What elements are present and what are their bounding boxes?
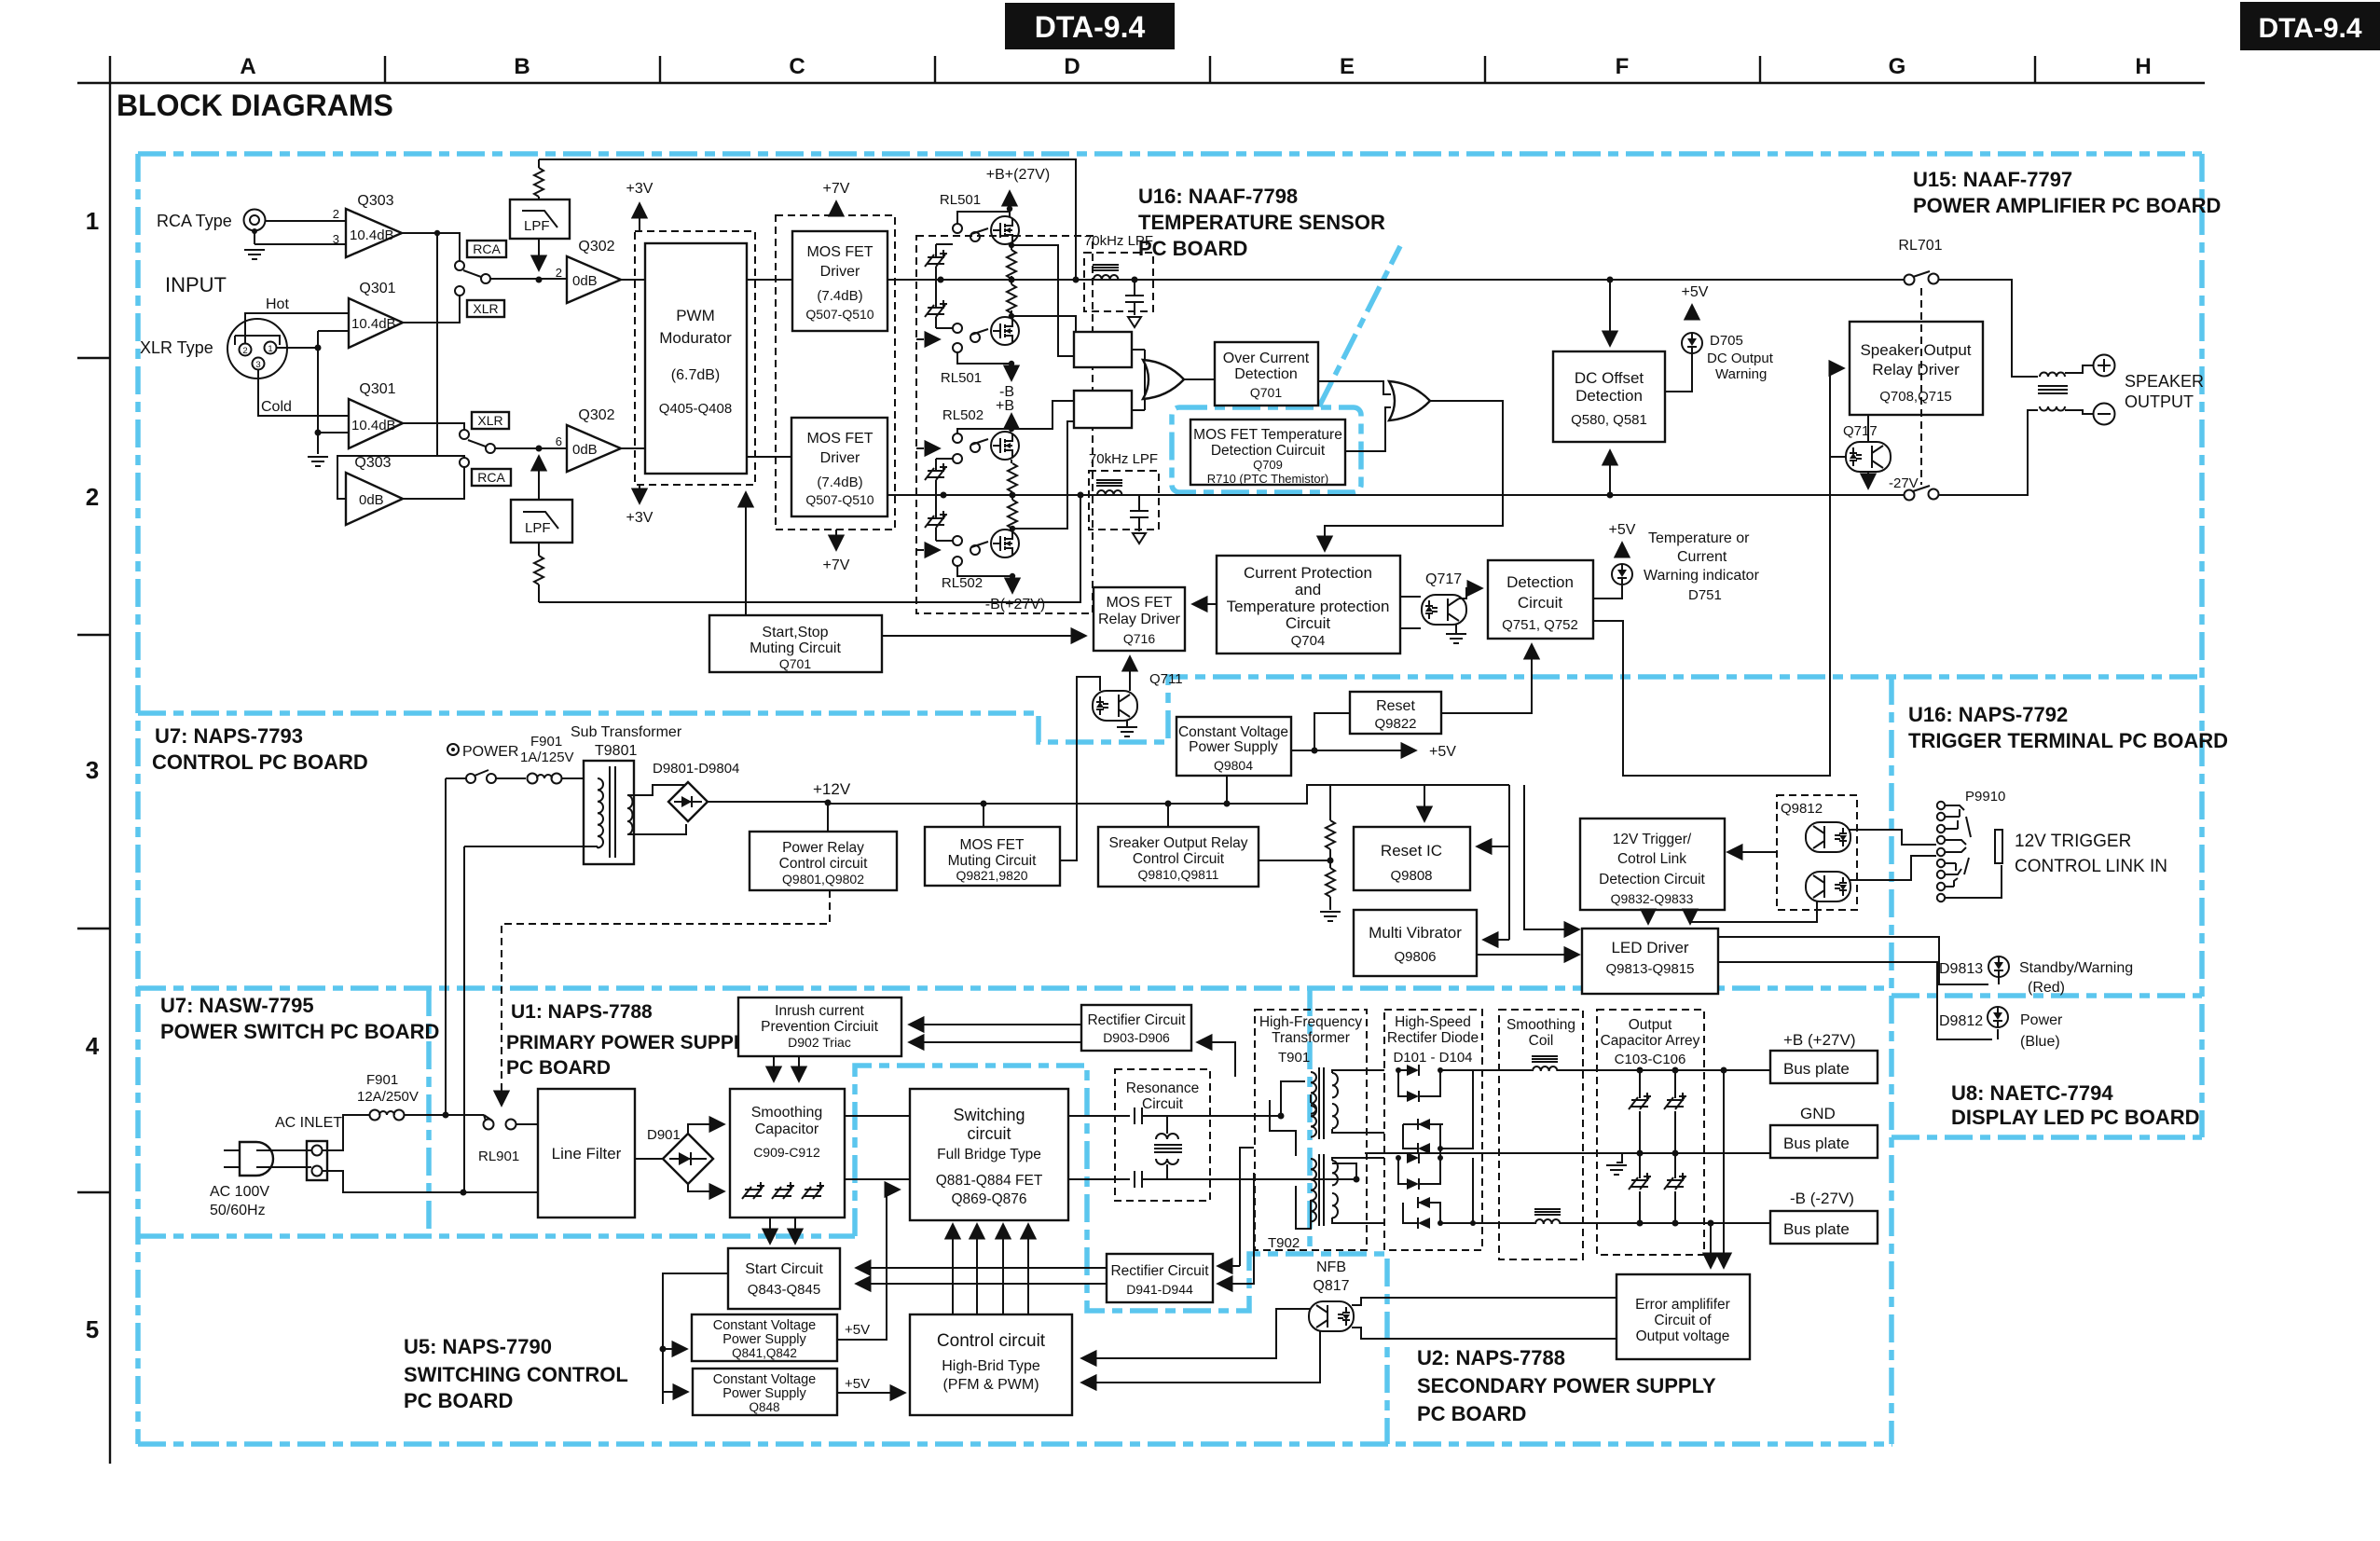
constant voltage power supply Q848 box — [693, 1369, 837, 1415]
wire smoothing to switching upper — [845, 1115, 910, 1117]
led D9813 — [1988, 956, 2009, 977]
wire caps to relay upper — [936, 244, 953, 328]
optocoupler Q9812 lower — [1806, 872, 1850, 901]
wire Q303 output to selector RCA — [402, 233, 460, 261]
wire into DC offset bottom from lower channel — [1609, 450, 1611, 495]
svg-text:+7V: +7V — [823, 557, 850, 573]
wire resistor to feedback top — [538, 159, 540, 200]
svg-text:Q405-Q408: Q405-Q408 — [659, 401, 732, 417]
power relay control circuit box — [750, 832, 897, 890]
U1 primary power supply board label — [506, 1001, 757, 1079]
svg-text:Standby/Warning: Standby/Warning — [2019, 960, 2133, 976]
transformer T901 — [1281, 1067, 1384, 1139]
U15 board right frame edge — [2199, 154, 2205, 1137]
svg-text:LPF: LPF — [525, 520, 551, 536]
wire rectifier D903 to inrush arrows — [909, 1024, 1081, 1025]
svg-text:High-Brid Type: High-Brid Type — [942, 1358, 1040, 1374]
resistor chain upper1 — [1007, 250, 1016, 279]
resonance circuit dashed box — [1115, 1069, 1210, 1201]
wire rail branch muting — [983, 804, 984, 827]
wire fuse to relay RL901 — [404, 1115, 486, 1121]
capacitor bias lower1 — [925, 463, 947, 480]
wire to Q301 lower input — [318, 432, 349, 433]
svg-text:Power Supply: Power Supply — [722, 1332, 806, 1347]
svg-text:Warning: Warning — [1715, 366, 1767, 382]
resistor above LPF upper — [534, 168, 543, 197]
+5V arrow into switching — [887, 1189, 900, 1190]
wire Q841 +5V to switching — [837, 1190, 887, 1340]
plus terminal — [2094, 355, 2115, 377]
svg-text:2: 2 — [242, 346, 247, 356]
svg-text:U16: NAAF-7798: U16: NAAF-7798 — [1138, 185, 1298, 208]
PWM modurator box — [645, 243, 747, 474]
U2 secondary power supply board label — [1417, 1346, 1716, 1425]
svg-text:Q708,Q715: Q708,Q715 — [1879, 389, 1952, 405]
fuse F901 control — [520, 734, 574, 784]
svg-text:PC BOARD: PC BOARD — [404, 1389, 513, 1412]
node n — [1010, 573, 1015, 579]
svg-text:Smoothing: Smoothing — [751, 1105, 823, 1121]
svg-text:RL502: RL502 — [942, 575, 983, 591]
nodes on GND rail — [1637, 1150, 1679, 1157]
DC offset detection box — [1553, 351, 1665, 442]
wires into D941 right arrows — [1218, 1265, 1240, 1267]
U16 trigger frame bottom — [1892, 993, 2202, 998]
node i — [1009, 242, 1014, 248]
wire NFB to error amp upper — [1352, 1298, 1616, 1305]
70kHz LPF upper dashed box — [1084, 233, 1153, 311]
sub transformer label — [571, 724, 682, 759]
AC plug — [224, 1142, 273, 1176]
svg-text:+7V: +7V — [823, 181, 850, 197]
svg-text:5: 5 — [86, 1315, 99, 1343]
label DC Output Warning — [1707, 351, 1774, 382]
capacitor bias upper1 — [925, 250, 947, 267]
capacitor array C103 upper — [1629, 1070, 1686, 1153]
svg-text:Q507-Q510: Q507-Q510 — [805, 307, 874, 322]
wire Q9804 down to 12V rail — [1226, 776, 1228, 804]
capacitor bias upper2 — [925, 300, 947, 317]
svg-text:BLOCK DIAGRAMS: BLOCK DIAGRAMS — [117, 89, 393, 122]
optocoupler Q717 — [1422, 595, 1466, 625]
resistor below LPF lower — [534, 556, 543, 585]
svg-text:Q881-Q884 FET: Q881-Q884 FET — [936, 1173, 1043, 1189]
wire into multi vibrator right arrow — [1483, 939, 1509, 941]
svg-text:U8: NAETC-7794: U8: NAETC-7794 — [1951, 1081, 2113, 1105]
svg-text:F901: F901 — [366, 1072, 398, 1088]
node m — [1010, 526, 1015, 531]
svg-text:Detection Circuit: Detection Circuit — [1599, 872, 1705, 887]
detection circuit box — [1488, 560, 1593, 639]
svg-text:Detection: Detection — [1575, 387, 1643, 405]
wire opto lower to led driver arrow — [1690, 901, 1817, 924]
svg-text:Q9832-Q9833: Q9832-Q9833 — [1611, 891, 1694, 906]
svg-text:R710 (PTC Themistor): R710 (PTC Themistor) — [1207, 472, 1329, 486]
svg-text:RL501: RL501 — [941, 370, 982, 386]
wire resistor divider — [1329, 785, 1331, 910]
label 12V TRIGGER CONTROL LINK IN — [2015, 832, 2167, 876]
wire rail branch power relay — [827, 803, 829, 832]
relay RL901 contacts — [484, 1115, 516, 1130]
svg-text:U7: NAPS-7793: U7: NAPS-7793 — [155, 724, 303, 748]
svg-text:3: 3 — [255, 360, 260, 370]
svg-text:Capacitor: Capacitor — [755, 1121, 819, 1137]
MOS FET relay driver box — [1094, 587, 1185, 651]
OR gate U-or2 — [1389, 381, 1430, 420]
start circuit box — [728, 1248, 840, 1309]
svg-text:DISPLAY LED PC BOARD: DISPLAY LED PC BOARD — [1951, 1106, 2200, 1129]
wire muting circuit to Q711 — [1060, 677, 1100, 860]
label SPEAKER OUTPUT — [2125, 372, 2204, 411]
wire into DC offset top — [1609, 280, 1611, 346]
svg-text:Capacitor Arrey: Capacitor Arrey — [1601, 1033, 1700, 1049]
wire relay lower to output transformer — [1938, 410, 2038, 495]
node resonance upper — [1278, 1113, 1285, 1120]
svg-text:POWER SWITCH PC BOARD: POWER SWITCH PC BOARD — [160, 1020, 439, 1043]
svg-text:Q711: Q711 — [1149, 671, 1183, 687]
MOS FET temperature detection box — [1190, 420, 1345, 486]
svg-text:1: 1 — [268, 344, 272, 354]
constant voltage power supply Q841 box — [692, 1314, 837, 1361]
wire into reset IC right arrow — [1477, 846, 1509, 847]
svg-text:Full Bridge Type: Full Bridge Type — [937, 1147, 1041, 1163]
wire over current to OR2 — [1318, 381, 1391, 394]
svg-text:2: 2 — [556, 266, 562, 280]
wire transformer to minus terminal — [2065, 410, 2093, 414]
selector lower switch — [460, 430, 495, 467]
wire Q848 +5V to control circuit arrow — [837, 1392, 905, 1394]
switching circuit box — [910, 1089, 1068, 1220]
wire switching to resonance lower — [1068, 1178, 1130, 1180]
+3V bottom arrow — [626, 485, 653, 526]
svg-text:70kHz LPF: 70kHz LPF — [1089, 451, 1158, 467]
MOS FET driver dashed box — [776, 215, 895, 530]
svg-text:POWER: POWER — [462, 744, 518, 760]
reset IC box — [1354, 827, 1470, 890]
svg-text:Q843-Q845: Q843-Q845 — [748, 1282, 820, 1298]
wire led driver to D9813 — [1718, 937, 1999, 984]
op-amp Q302 lower — [556, 407, 621, 472]
svg-text:Coil: Coil — [1529, 1033, 1554, 1049]
wire bridge to smoothing cap top — [688, 1124, 724, 1134]
wire DC offset to speaker relay driver — [1593, 368, 1844, 776]
12V trigger detection box — [1580, 819, 1725, 910]
wire opto upper to connector — [1850, 830, 1936, 845]
label Power (Blue) — [2020, 1012, 2063, 1050]
arrow +5V warning — [1621, 543, 1623, 556]
wire current protection to relay driver arrow — [1192, 603, 1217, 605]
node f — [1010, 492, 1016, 499]
right lower frame vertical (U16/U8 left edge) — [1889, 677, 1894, 1444]
svg-text:Q302: Q302 — [578, 239, 614, 255]
svg-text:Q751, Q752: Q751, Q752 — [1502, 617, 1578, 633]
smoothing coil dashed box — [1499, 1010, 1583, 1259]
svg-text:+3V: +3V — [626, 181, 653, 197]
control up arrow4 — [1027, 1224, 1029, 1314]
svg-text:U5: NAPS-7790: U5: NAPS-7790 — [404, 1335, 552, 1358]
MOS FET driver upper box — [792, 231, 887, 331]
wires control circuit up arrows to switching — [952, 1224, 954, 1314]
connector P9910 pins — [1937, 802, 2002, 901]
wire inrush arrow2 — [798, 1056, 800, 1081]
svg-text:XLR: XLR — [473, 301, 498, 316]
wire Q717 to detection circuit arrow — [1459, 588, 1482, 599]
svg-text:and: and — [1295, 581, 1321, 599]
wire Q303 lower output — [403, 467, 464, 499]
wire rail branch sreaker relay — [1167, 804, 1169, 827]
svg-text:0dB: 0dB — [572, 442, 598, 458]
bus plate box 3 — [1770, 1211, 1878, 1244]
-B(+27V) arrow down — [1011, 576, 1013, 593]
svg-text:RL701: RL701 — [1898, 238, 1942, 254]
bridge rectifier D9801-D9804 — [653, 761, 739, 821]
wire upper into led driver — [1524, 785, 1579, 929]
svg-text:Line Filter: Line Filter — [552, 1145, 622, 1163]
dashed control path to RL901 — [502, 890, 830, 1106]
wire multi vibrator to led driver — [1477, 954, 1579, 956]
resistor chain lower1 — [1008, 463, 1017, 492]
wires inrush to smoothing cap arrows — [773, 1056, 775, 1081]
label F901 12A/250V — [357, 1072, 419, 1105]
wire Q302 lower to PWM — [621, 447, 645, 449]
wire NFB to control circuit lower — [1081, 1331, 1320, 1383]
svg-text:1A/125V: 1A/125V — [520, 750, 574, 765]
svg-text:Rectifer Diode: Rectifer Diode — [1387, 1030, 1479, 1046]
U2 frame vertical at transformer — [1307, 988, 1313, 1254]
svg-text:Prevention Circiuit: Prevention Circiuit — [761, 1019, 878, 1035]
wire OR2 output to current protection — [1325, 401, 1503, 551]
capacitor bias lower2 — [925, 511, 947, 528]
U7 power switch frame right edge — [426, 988, 432, 1236]
svg-text:+5V: +5V — [845, 1322, 870, 1338]
svg-text:Speaker Output: Speaker Output — [1860, 341, 1971, 359]
ground below XLR — [308, 457, 328, 466]
grid header line and ticks — [77, 56, 2205, 83]
U15 board label — [1913, 168, 2221, 217]
svg-text:Start,Stop: Start,Stop — [762, 625, 828, 640]
svg-text:Q580, Q581: Q580, Q581 — [1571, 412, 1647, 428]
svg-text:SECONDARY POWER SUPPLY: SECONDARY POWER SUPPLY — [1417, 1374, 1716, 1397]
resistor chain upper2 — [1007, 284, 1016, 313]
svg-text:Q9801,Q9802: Q9801,Q9802 — [782, 872, 864, 887]
wire smoothing to switching lower — [845, 1178, 910, 1180]
relay RL501 upper — [940, 192, 1010, 241]
svg-text:Rectifier Circuit: Rectifier Circuit — [1110, 1263, 1209, 1279]
node 12v a — [825, 800, 832, 806]
svg-text:U7: NASW-7795: U7: NASW-7795 — [160, 994, 314, 1017]
node pin1 — [315, 345, 322, 351]
svg-text:Driver: Driver — [820, 450, 860, 466]
resistor divider upper — [1326, 820, 1335, 849]
svg-text:Q9822: Q9822 — [1374, 716, 1416, 732]
jack symbol — [1995, 830, 2002, 863]
wire -B down to error amp — [1710, 1223, 1712, 1268]
wire crossover lower to gate box B — [1011, 401, 1074, 529]
power switch contacts — [466, 770, 496, 783]
control up arrow2 — [976, 1224, 978, 1314]
MOS FET driver lower box — [791, 418, 887, 516]
svg-text:Constant Voltage: Constant Voltage — [1178, 724, 1288, 740]
arrow into Q841 box — [663, 1348, 687, 1350]
wire opto lower row — [1850, 856, 1936, 880]
svg-text:Transformer: Transformer — [1272, 1030, 1350, 1046]
svg-text:Circuit: Circuit — [1286, 614, 1330, 632]
resistor divider lower — [1326, 868, 1335, 897]
wire led driver to D9812 — [1718, 962, 1998, 1039]
svg-text:Muting Circuit: Muting Circuit — [948, 853, 1037, 869]
svg-text:Sreaker Output Relay: Sreaker Output Relay — [1108, 835, 1247, 851]
svg-text:Current: Current — [1677, 549, 1727, 565]
wire mosfet1 drain chain — [1011, 244, 1012, 319]
U7 control board bottom boundary — [138, 985, 1892, 991]
svg-text:Q9810,Q9811: Q9810,Q9811 — [1138, 867, 1219, 882]
dashed relay link RL701 — [1920, 288, 1922, 485]
wire opto to trigger box arrow — [1727, 851, 1777, 853]
rectifier circuit D941 box — [1107, 1254, 1213, 1302]
svg-text:AC 100V: AC 100V — [210, 1184, 269, 1200]
power switch icon — [447, 744, 518, 760]
fuse F901 main — [370, 1110, 405, 1121]
transformer T902 — [1305, 1154, 1384, 1226]
multi vibrator box — [1354, 910, 1477, 976]
wire D705 to DC offset box — [1665, 353, 1692, 392]
svg-text:U15: NAAF-7797: U15: NAAF-7797 — [1913, 168, 2072, 191]
bus plate box 2 — [1770, 1125, 1878, 1158]
+7V bottom arrow — [823, 530, 850, 573]
op-amp Q303 upper — [333, 193, 402, 257]
svg-text:RCA: RCA — [473, 241, 501, 256]
svg-text:Power Supply: Power Supply — [722, 1386, 806, 1401]
header black box center — [1005, 3, 1175, 49]
svg-text:U2: NAPS-7788: U2: NAPS-7788 — [1417, 1346, 1565, 1369]
-B arrow down — [1011, 364, 1012, 380]
dashed control arrow RL501 — [916, 338, 940, 340]
svg-text:10.4dB: 10.4dB — [351, 316, 396, 332]
svg-text:Temperature protection: Temperature protection — [1227, 598, 1390, 615]
svg-text:RL901: RL901 — [478, 1149, 519, 1164]
svg-text:Q301: Q301 — [359, 281, 395, 296]
svg-text:Q9821,9820: Q9821,9820 — [956, 868, 1027, 883]
wire inlet top to fuse — [323, 1115, 370, 1150]
wire NFB to error amp lower — [1352, 1328, 1616, 1339]
wires D941 to start circuit arrows — [856, 1267, 1107, 1269]
relay RL701 upper contacts — [1905, 271, 1939, 285]
high frequency transformer dashed box — [1255, 1010, 1367, 1251]
svg-text:Q717: Q717 — [1843, 423, 1878, 439]
node divider — [1328, 858, 1334, 864]
svg-text:2: 2 — [333, 207, 339, 221]
inductor upper lpf — [1093, 265, 1119, 280]
svg-text:Rectifier Circuit: Rectifier Circuit — [1087, 1012, 1186, 1028]
sreaker output relay control box — [1098, 827, 1259, 887]
wire start stop to relay driver — [882, 635, 1086, 637]
bridge rectifier D901 — [663, 1134, 713, 1184]
node ac bottom — [461, 1190, 467, 1196]
wire fuse to transformer — [561, 777, 598, 779]
PWM modurator dashed box — [635, 231, 755, 485]
svg-text:D902 Triac: D902 Triac — [788, 1035, 851, 1050]
svg-text:-27V: -27V — [1889, 475, 1919, 491]
svg-text:MOS FET: MOS FET — [1106, 595, 1172, 611]
wire switching to resonance upper — [1068, 1115, 1130, 1117]
nodes on -B rail — [1637, 1220, 1714, 1227]
svg-text:Q302: Q302 — [578, 407, 614, 423]
svg-text:Q303: Q303 — [354, 455, 391, 471]
wires smoothing cap to start circuit arrows — [769, 1218, 771, 1244]
node RCA out — [434, 230, 440, 236]
capacitor array lower — [1629, 1153, 1686, 1223]
wire +B to mosfet1 — [1009, 209, 1011, 217]
LPF lower box — [511, 500, 572, 543]
svg-text:Bus plate: Bus plate — [1783, 1135, 1850, 1152]
svg-text:MOS FET: MOS FET — [960, 837, 1025, 853]
grid column letters — [240, 54, 2151, 79]
wire inlet bottom line — [323, 1171, 538, 1192]
wire XLR pin1 junction — [276, 331, 349, 454]
op-amp Q302 upper — [556, 239, 621, 303]
svg-text:PC BOARD: PC BOARD — [506, 1057, 611, 1079]
header black box right — [2240, 2, 2380, 50]
U1 primary supply frame — [855, 1066, 1387, 1444]
transistor Q-mosfet3 — [991, 432, 1019, 460]
AC inlet connector — [307, 1141, 327, 1180]
svg-text:D705: D705 — [1710, 333, 1743, 349]
label RCA boxed upper — [467, 241, 506, 257]
svg-text:12A/250V: 12A/250V — [357, 1089, 419, 1105]
node 12v c — [1165, 801, 1172, 807]
svg-text:(7.4dB): (7.4dB) — [817, 288, 862, 304]
svg-text:Modurator: Modurator — [659, 329, 732, 347]
wire Q302 upper to PWM — [621, 279, 645, 281]
svg-text:Inrush current: Inrush current — [775, 1003, 864, 1019]
relay RL701 lower contacts — [1905, 486, 1939, 501]
node k — [1009, 361, 1014, 366]
svg-text:Switching: Switching — [953, 1106, 1025, 1124]
wires current protection to Q717 — [1400, 597, 1421, 628]
svg-text:Sub Transformer: Sub Transformer — [571, 724, 682, 740]
node 12v d — [1224, 801, 1231, 807]
svg-text:Circuit: Circuit — [1518, 594, 1562, 612]
node +B — [1007, 206, 1012, 212]
wire smoothing to start arrow2 — [794, 1218, 796, 1244]
svg-text:2: 2 — [86, 483, 99, 511]
op-amp Q301 upper — [349, 281, 403, 348]
svg-text:(7.4dB): (7.4dB) — [817, 475, 862, 490]
node dc offset top — [1607, 277, 1614, 283]
feedback wire upper — [539, 159, 1076, 281]
svg-text:C: C — [789, 54, 805, 79]
U16 trigger terminal board label — [1908, 703, 2228, 752]
svg-text:Power Supply: Power Supply — [1189, 739, 1278, 755]
ground divider — [1320, 912, 1341, 921]
svg-text:MOS FET Temperature: MOS FET Temperature — [1193, 427, 1342, 443]
+3V top arrow — [626, 181, 653, 231]
wire D903 to inrush arrow2 — [909, 1041, 1081, 1043]
main wire lower channel — [887, 494, 1905, 496]
svg-text:4: 4 — [86, 1032, 100, 1060]
svg-text:D941-D944: D941-D944 — [1126, 1282, 1193, 1297]
selector upper switch — [455, 261, 490, 296]
resonance transformer — [1154, 1116, 1182, 1179]
70kHz LPF lower dashed box — [1089, 451, 1159, 530]
constant voltage power supply Q9804 box — [1176, 717, 1291, 776]
svg-text:+5V: +5V — [1682, 284, 1709, 300]
svg-text:6: 6 — [556, 434, 562, 448]
svg-text:AC INLET: AC INLET — [275, 1115, 342, 1131]
minus terminal — [2094, 404, 2115, 425]
wire relay to line filter — [516, 1123, 538, 1125]
svg-text:TEMPERATURE SENSOR: TEMPERATURE SENSOR — [1138, 211, 1385, 234]
